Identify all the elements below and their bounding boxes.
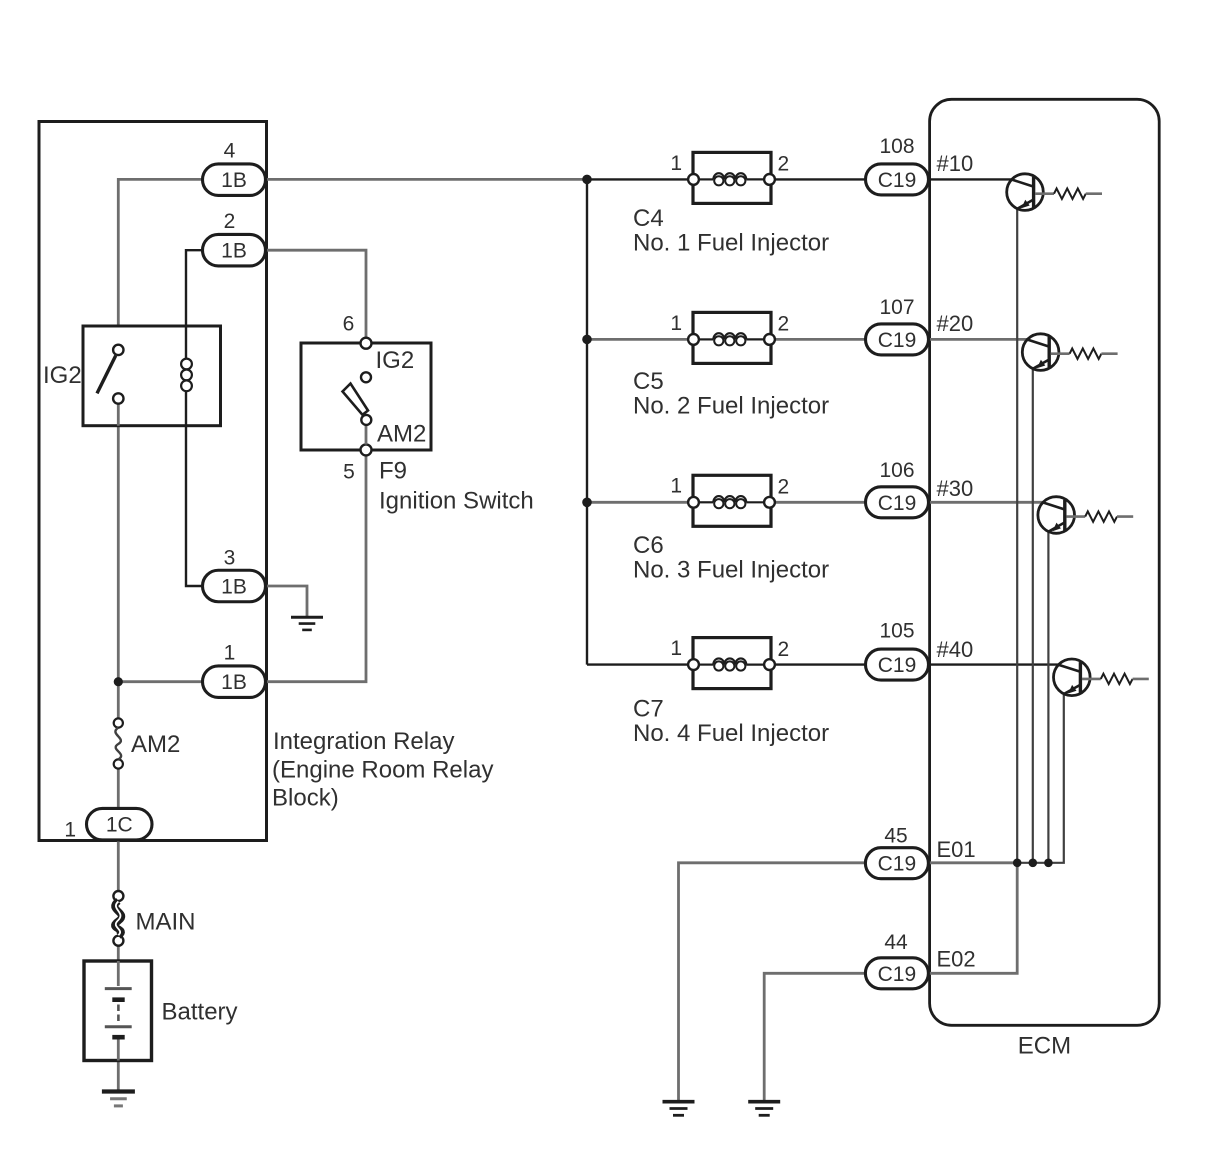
- svg-text:No. 1 Fuel Injector: No. 1 Fuel Injector: [633, 230, 829, 257]
- wire: Q3 emitter to E01 bus: [1047, 532, 1049, 863]
- wire: feed node to injector C4 pin1: [587, 178, 689, 180]
- wire: connector C19 105 to transistor Q4: [929, 663, 1060, 665]
- wire: connector 1B pin4 to relay IG2 switch: [118, 179, 202, 344]
- fuse AM2: [114, 718, 123, 768]
- svg-text:C5: C5: [633, 368, 664, 395]
- svg-text:108: 108: [879, 135, 914, 158]
- connector 1B pin2: [203, 234, 266, 266]
- svg-text:1: 1: [64, 818, 76, 841]
- wire: E02 pin to emitter bus: [930, 863, 1018, 974]
- injector C7 (No. 4 Fuel Injector): [688, 638, 775, 689]
- svg-text:1: 1: [224, 642, 236, 665]
- wire: injector C6 pin2 to connector C19: [774, 501, 866, 504]
- wire: connector 1B pin2 to relay coil: [186, 250, 203, 358]
- svg-text:No. 3 Fuel Injector: No. 3 Fuel Injector: [633, 557, 829, 584]
- svg-text:1B: 1B: [221, 240, 247, 263]
- svg-text:1B: 1B: [221, 576, 247, 599]
- junction: feed bus row 2: [582, 335, 592, 345]
- wire: connector C19 108 to transistor Q1: [929, 178, 1013, 180]
- wire: Q1 emitter down to E02 node: [1016, 209, 1018, 863]
- junction: Q1 emitter / E01 bus: [1013, 859, 1022, 868]
- wire: battery to ground: [117, 1061, 120, 1090]
- wire: Q4 emitter to E01 bus: [1017, 695, 1064, 863]
- wire: relay switch through node A to fuse AM2: [117, 404, 120, 718]
- integration relay block (Engine Room Relay Block) outline: [39, 122, 267, 841]
- wire: Q2 emitter to E01 bus: [1032, 369, 1034, 863]
- svg-text:45: 45: [884, 825, 907, 848]
- svg-text:AM2: AM2: [131, 731, 180, 758]
- ground (E01): [663, 1102, 695, 1116]
- svg-text:C19: C19: [878, 853, 917, 876]
- svg-text:C19: C19: [878, 963, 917, 986]
- svg-text:44: 44: [884, 931, 908, 954]
- resistor at base of Q3: [1066, 511, 1133, 521]
- connector 1B pin3: [203, 570, 266, 602]
- svg-text:Battery: Battery: [162, 999, 238, 1026]
- connector C19 terminal 45 (E01): [865, 848, 928, 879]
- wire: injector C4 pin2 to connector C19: [774, 178, 866, 180]
- junction: Q3 emitter / E01 bus: [1044, 859, 1053, 868]
- svg-text:2: 2: [778, 476, 790, 499]
- svg-text:C4: C4: [633, 205, 664, 232]
- svg-text:1B: 1B: [221, 169, 247, 192]
- svg-text:No. 2 Fuel Injector: No. 2 Fuel Injector: [633, 393, 829, 420]
- svg-text:#20: #20: [937, 311, 974, 336]
- svg-text:1: 1: [670, 312, 682, 335]
- svg-text:C19: C19: [878, 329, 917, 352]
- ground (relay 1B pin3): [291, 617, 323, 630]
- resistor at base of Q4: [1082, 674, 1149, 684]
- wire: connector C19 45 (E01) to ground: [679, 863, 866, 1100]
- svg-text:1B: 1B: [221, 671, 247, 694]
- wire: injector feed bus: [586, 179, 588, 664]
- svg-text:2: 2: [224, 210, 236, 233]
- svg-text:#40: #40: [937, 637, 974, 662]
- svg-text:C19: C19: [878, 654, 917, 677]
- transistor Q1 (#10 driver): [1007, 174, 1044, 211]
- connector C19 (terminal 108): [866, 164, 929, 195]
- svg-text:C19: C19: [878, 492, 917, 515]
- ground (battery): [102, 1092, 135, 1106]
- connector 1C pin1: [87, 808, 153, 840]
- fusible link MAIN: [113, 891, 123, 946]
- svg-text:IG2: IG2: [376, 347, 415, 374]
- connector C19 (terminal 107): [866, 324, 929, 355]
- connector 1B pin1: [203, 666, 266, 698]
- svg-text:2: 2: [778, 153, 790, 176]
- wire: feed node to injector C6 pin1: [587, 501, 689, 504]
- svg-text:C6: C6: [633, 532, 664, 559]
- resistor at base of Q1: [1035, 189, 1102, 199]
- wire: connector 1B pin2 to ignition switch pin6: [266, 250, 367, 338]
- node A junction: [114, 677, 123, 686]
- ground (E02): [748, 1102, 780, 1116]
- connector C19 terminal 44 (E02): [865, 958, 928, 989]
- wire: feed node to injector C5 pin1: [587, 338, 689, 341]
- wire: injector C5 pin2 to connector C19: [774, 338, 866, 341]
- wire: connector C19 106 to transistor Q3: [929, 501, 1044, 504]
- transistor Q3 (#30 driver): [1038, 497, 1075, 534]
- ECM box: [930, 99, 1160, 1025]
- svg-text:107: 107: [879, 296, 914, 319]
- svg-text:3: 3: [224, 547, 236, 570]
- svg-text:ECM: ECM: [1018, 1033, 1071, 1060]
- injector C6 (No. 3 Fuel Injector): [688, 475, 775, 526]
- wire: connector C19 44 (E02) to ground: [764, 973, 865, 1100]
- svg-text:5: 5: [343, 461, 355, 484]
- svg-text:1: 1: [670, 475, 682, 498]
- svg-text:1: 1: [670, 637, 682, 660]
- resistor at base of Q2: [1051, 349, 1118, 359]
- svg-text:2: 2: [778, 313, 790, 336]
- svg-text:Block): Block): [272, 785, 339, 812]
- junction: Q2 emitter / E01 bus: [1029, 859, 1038, 868]
- wire: connector 1B pin4 to injector feed node: [266, 178, 588, 181]
- svg-text:#10: #10: [937, 151, 974, 176]
- svg-text:Ignition Switch: Ignition Switch: [379, 488, 534, 515]
- injector C5 (No. 2 Fuel Injector): [688, 312, 775, 363]
- svg-text:#30: #30: [937, 476, 974, 501]
- wire: node A to connector 1B pin1: [118, 680, 202, 683]
- svg-text:MAIN: MAIN: [136, 909, 196, 936]
- wire: injector C7 pin2 to connector C19: [774, 663, 866, 665]
- svg-text:Integration Relay: Integration Relay: [273, 728, 454, 755]
- svg-text:F9: F9: [379, 458, 407, 485]
- svg-text:1C: 1C: [106, 814, 133, 837]
- svg-text:106: 106: [879, 459, 914, 482]
- transistor Q4 (#40 driver): [1054, 659, 1091, 696]
- svg-text:105: 105: [879, 620, 914, 643]
- junction: feed bus row 3: [582, 498, 592, 508]
- svg-text:C19: C19: [878, 169, 917, 192]
- wire: connector C19 107 to transistor Q2: [929, 338, 1029, 341]
- svg-text:E02: E02: [937, 946, 976, 971]
- wire: feed node to injector C7 pin1: [587, 663, 689, 665]
- injector C4 (No. 1 Fuel Injector): [688, 152, 775, 203]
- wire: fuse AM2 to connector 1C: [117, 769, 120, 809]
- svg-text:C7: C7: [633, 695, 664, 722]
- wire: E01 pin into ECM: [930, 861, 1018, 864]
- svg-text:IG2: IG2: [43, 362, 82, 389]
- battery: [84, 961, 152, 1061]
- svg-text:No. 4 Fuel Injector: No. 4 Fuel Injector: [633, 720, 829, 747]
- junction: feed bus row 1: [582, 175, 592, 185]
- relay IG2 (inside integration relay block): [83, 326, 221, 426]
- svg-text:4: 4: [224, 140, 236, 163]
- connector C19 (terminal 106): [866, 487, 929, 518]
- transistor Q2 (#20 driver): [1022, 334, 1059, 371]
- wire: connector 1B pin3 to ground: [266, 586, 308, 616]
- wire: connector 1B pin1 to ignition switch pin5: [266, 455, 367, 682]
- wire: fusible link MAIN to battery: [117, 946, 120, 963]
- svg-text:AM2: AM2: [377, 421, 426, 448]
- ignition switch F9: [301, 338, 431, 456]
- svg-text:6: 6: [343, 312, 355, 335]
- svg-text:2: 2: [778, 638, 790, 661]
- connector C19 (terminal 105): [866, 649, 929, 680]
- connector 1B pin4: [203, 164, 266, 196]
- svg-text:(Engine Room Relay: (Engine Room Relay: [272, 756, 493, 783]
- svg-text:E01: E01: [937, 837, 976, 862]
- wire: relay coil to connector 1B pin3: [186, 391, 203, 587]
- wire: connector 1C to fusible link MAIN: [117, 839, 120, 891]
- svg-text:1: 1: [670, 152, 682, 175]
